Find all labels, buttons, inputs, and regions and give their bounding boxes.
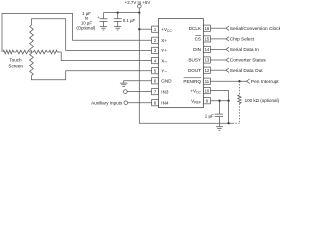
svg-text:11: 11 — [205, 79, 210, 84]
ground symbol C3 — [216, 127, 223, 130]
svg-text:(Optional): (Optional) — [76, 26, 95, 31]
node supply-pin1 — [138, 28, 140, 30]
wire — [30, 51, 34, 53]
arrow BUSY — [226, 58, 229, 62]
wire aux IN4 to pin 8 — [128, 102, 152, 104]
resistor R1 100k dashed bottom lead — [233, 104, 240, 124]
supply terminal circle — [138, 4, 142, 8]
wire GND pin 6 — [124, 81, 152, 83]
capacitor C1 1uF-10uF optional — [100, 13, 108, 27]
pin 10 box — [203, 88, 210, 94]
arrow PENIRQ — [246, 79, 249, 83]
arrow DOUT — [226, 68, 229, 72]
pin 13 box — [203, 57, 210, 63]
node supply-caps — [138, 11, 140, 13]
wire supply to pin 1 — [139, 28, 151, 30]
svg-text:Chip Select: Chip Select — [230, 37, 255, 43]
IC U1 ADS7843 body — [158, 19, 203, 108]
overbar CS — [195, 35, 201, 37]
pin 3 box — [152, 47, 159, 53]
node rail junction — [227, 122, 229, 124]
pin 14 box — [203, 46, 210, 52]
pin 5 box — [152, 68, 159, 74]
svg-text:12: 12 — [205, 68, 210, 73]
wire — [14, 51, 17, 53]
wire +VCC supply vertical + bottom rail — [139, 8, 232, 123]
arrow CS — [226, 37, 229, 41]
svg-text:GND: GND — [161, 79, 172, 84]
pin 6 box — [152, 78, 159, 84]
svg-text:14: 14 — [205, 47, 210, 52]
touch screen resistor RY1 (top) — [30, 25, 34, 51]
wire cross — [31, 51, 33, 53]
svg-text:CS: CS — [195, 37, 201, 42]
ground symbol pin 6 — [120, 83, 128, 86]
svg-text:DIN: DIN — [193, 47, 201, 52]
svg-text:X–: X– — [161, 58, 167, 63]
node VREF cap tap — [218, 100, 220, 102]
wire X+ to pin 2 — [2, 13, 152, 52]
wire BUSY pin 13 — [210, 59, 226, 61]
node VREF-VCC tie — [227, 100, 229, 102]
wire aux IN3 to pin 7 — [127, 91, 151, 93]
wire +VCC pin 10 to rail — [210, 91, 228, 124]
wire Y+ to pin 3 — [32, 19, 152, 51]
ground symbol C1 — [100, 27, 107, 30]
svg-text:Converter Status: Converter Status — [230, 58, 267, 64]
svg-text:BUSY: BUSY — [188, 58, 201, 63]
pin 11 box — [203, 78, 210, 84]
svg-text:IN4: IN4 — [161, 100, 169, 105]
node C2 tap — [117, 11, 119, 13]
arrow DCLK — [226, 26, 229, 30]
svg-text:Serial Data In: Serial Data In — [230, 47, 259, 53]
wire DCLK pin 16 — [210, 27, 226, 29]
touch screen resistor RX1 — [3, 50, 14, 54]
overbar PENIRQ — [184, 77, 201, 79]
pin 8 box — [152, 100, 159, 106]
pin 1 box — [152, 26, 159, 32]
wire X- to pin 4 — [61, 52, 151, 61]
aux IN4 terminal circle — [124, 101, 128, 105]
svg-text:X+: X+ — [161, 38, 167, 43]
pin 12 box — [203, 67, 210, 73]
wire PENIRQ pin 11 — [210, 80, 246, 82]
pin 9 box — [203, 98, 210, 104]
aux IN3 terminal circle — [124, 90, 128, 94]
resistor R1 100k body — [238, 95, 241, 104]
svg-text:Serial Data Out: Serial Data Out — [230, 68, 263, 74]
wire — [57, 51, 61, 53]
svg-text:1 µF: 1 µF — [205, 113, 214, 118]
touch screen resistor RY2 (bottom) — [30, 53, 34, 75]
touch screen resistor RX4 — [49, 50, 57, 54]
svg-text:+2.7V to +5V: +2.7V to +5V — [125, 0, 151, 5]
svg-text:Pen Interrupt: Pen Interrupt — [251, 79, 279, 85]
touch screen resistor RX2 — [16, 50, 30, 54]
svg-text:13: 13 — [205, 58, 210, 63]
svg-text:Y+: Y+ — [161, 48, 167, 53]
pin 2 box — [152, 37, 159, 43]
wire DIN pin 14 — [210, 48, 226, 50]
capacitor C2 0.1uF — [114, 13, 122, 27]
svg-text:Screen: Screen — [8, 64, 23, 69]
svg-text:DOUT: DOUT — [188, 68, 201, 73]
svg-text:10: 10 — [205, 88, 210, 93]
wire DOUT pin 12 — [210, 69, 226, 71]
svg-text:Touch: Touch — [9, 57, 22, 62]
svg-text:PENIRQ: PENIRQ — [183, 79, 201, 84]
svg-text:DCLK: DCLK — [189, 26, 202, 31]
pin 16 box — [203, 25, 210, 31]
svg-text:IN3: IN3 — [161, 89, 169, 94]
wire — [47, 51, 49, 53]
resistor R1 100k pullup dashed top lead — [239, 81, 241, 95]
node PENIRQ pullup — [238, 80, 240, 82]
svg-text:0.1 µF: 0.1 µF — [123, 18, 136, 23]
capacitor C3 1uF on VREF — [215, 101, 223, 127]
svg-text:Y–: Y– — [161, 68, 167, 73]
arrow DIN — [226, 47, 229, 51]
svg-text:Auxiliary Inputs: Auxiliary Inputs — [91, 100, 123, 105]
svg-text:15: 15 — [205, 37, 210, 42]
wire bypass rail — [104, 12, 140, 14]
svg-text:Serial/Conversion Clock: Serial/Conversion Clock — [230, 26, 280, 32]
svg-text:16: 16 — [205, 26, 210, 31]
pin 4 box — [152, 58, 159, 64]
pin 15 box — [203, 36, 210, 42]
touch screen resistor RX3 — [34, 50, 48, 54]
svg-text:100 kΩ (optional): 100 kΩ (optional) — [245, 98, 280, 103]
wire Y- to pin 5 — [32, 71, 152, 80]
ground symbol C2 — [114, 27, 121, 30]
wire VREF pin 9 — [210, 100, 228, 102]
pin 7 box — [152, 89, 159, 95]
wire CS pin 15 — [210, 38, 226, 40]
